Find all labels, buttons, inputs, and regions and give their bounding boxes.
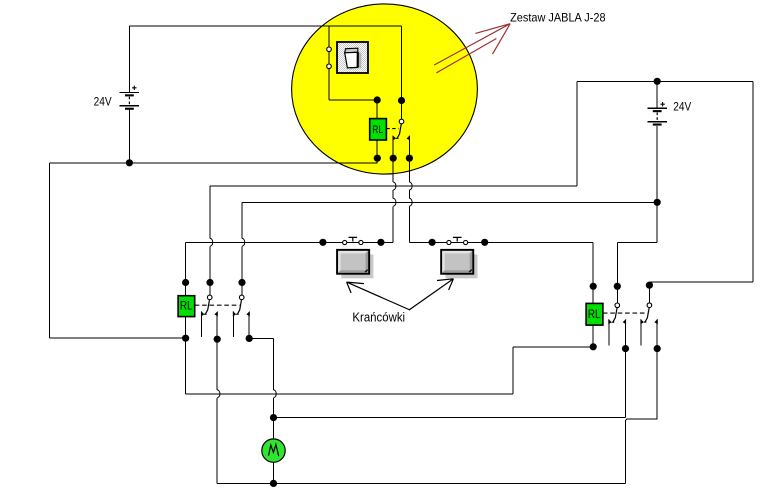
svg-text:RL: RL	[180, 299, 193, 313]
svg-text:RL: RL	[588, 307, 601, 321]
svg-text:24V: 24V	[673, 102, 691, 114]
svg-text:24V: 24V	[94, 96, 112, 108]
svg-text:Krańcówki: Krańcówki	[352, 310, 405, 325]
svg-text:Zestaw JABLA J-28: Zestaw JABLA J-28	[510, 11, 606, 25]
svg-text:RL: RL	[372, 124, 383, 136]
